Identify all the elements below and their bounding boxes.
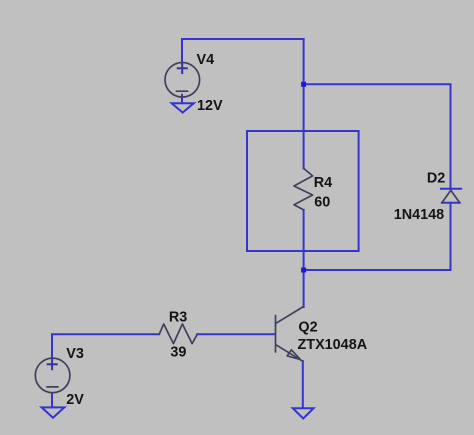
svg-text:ZTX1048A: ZTX1048A [298,337,368,353]
svg-text:V3: V3 [66,346,84,362]
svg-text:39: 39 [170,345,186,361]
svg-text:D2: D2 [427,171,445,187]
svg-text:R4: R4 [314,175,332,191]
svg-text:Q2: Q2 [298,320,317,336]
svg-text:1N4148: 1N4148 [394,207,444,223]
svg-text:R3: R3 [169,309,187,325]
svg-text:60: 60 [314,195,330,211]
svg-text:2V: 2V [66,392,84,408]
svg-text:V4: V4 [197,52,215,68]
svg-text:12V: 12V [197,98,223,114]
